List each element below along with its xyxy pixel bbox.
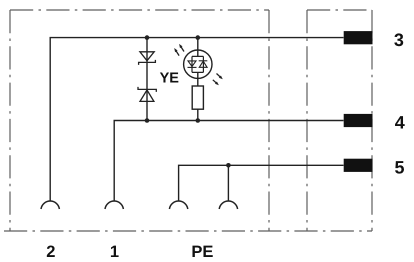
contact PE-b arc xyxy=(219,201,237,209)
terminal 5 xyxy=(344,159,373,172)
node junction top wire / LED xyxy=(196,35,201,40)
zener diode V1 (upper, cathode down) xyxy=(139,52,156,65)
svg-text:PE: PE xyxy=(191,243,213,261)
contact 2 arc xyxy=(41,201,59,209)
left enclosure boundary (dash-dot box) xyxy=(10,10,269,231)
wire pin1 to terminal 4 xyxy=(114,121,343,201)
terminal 3 xyxy=(344,31,373,44)
wire LED branch upper xyxy=(197,38,199,57)
LED light arrows lower-right xyxy=(213,74,223,86)
svg-text:YE: YE xyxy=(160,71,180,87)
svg-text:4: 4 xyxy=(395,113,405,133)
node junction wire4 / LED xyxy=(196,118,201,123)
node junction wire4 / suppressor xyxy=(145,118,150,123)
wire pin2 to terminal 3 xyxy=(50,38,343,201)
resistor R1 xyxy=(192,86,203,109)
contact 1 arc xyxy=(105,201,123,209)
node junction PE wire xyxy=(226,163,231,168)
bottom boundary line (dash-dot) xyxy=(4,230,372,232)
zener diode V2 (lower, cathode up) xyxy=(138,87,156,102)
svg-text:3: 3 xyxy=(394,30,404,50)
wire suppressor branch xyxy=(146,38,148,121)
terminal 4 xyxy=(344,114,373,127)
svg-text:5: 5 xyxy=(394,157,404,177)
node junction top wire / suppressor xyxy=(145,35,150,40)
wire LED branch lower xyxy=(197,72,199,86)
svg-text:1: 1 xyxy=(110,243,119,261)
right inner diode (up) xyxy=(199,60,208,62)
wire PE second contact stem xyxy=(227,165,229,200)
svg-text:2: 2 xyxy=(46,243,55,261)
wire resistor to pin1 wire xyxy=(197,109,199,120)
wire PE to terminal 5 xyxy=(179,165,344,200)
LED U1 (yellow indicator, bidirectional) xyxy=(184,50,212,78)
left inner diode (down) xyxy=(188,61,196,67)
right connector boundary (dash-dot box) xyxy=(307,10,372,231)
LED light arrows upper-left xyxy=(174,44,184,56)
contact PE-a arc xyxy=(169,201,187,209)
